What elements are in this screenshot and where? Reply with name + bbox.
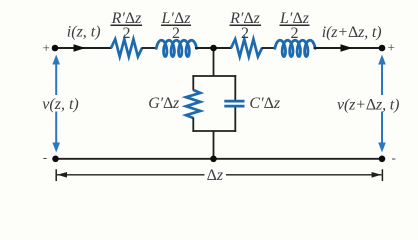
voltage arrow v(z+dz,t): up arrowhead (378, 55, 386, 153)
label R'dz/2 #2 (229, 10, 261, 42)
dimension: left tick (55, 169, 57, 181)
wire: shunt top rail (192, 75, 236, 77)
svg-text:2: 2 (291, 25, 299, 42)
dimension: line right part (226, 174, 382, 176)
voltage arrow v(z+dz,t): shaft upper (381, 62, 383, 95)
voltage arrow v(z,t): down arrowhead (52, 143, 60, 153)
wire: G branch bottom (192, 118, 194, 132)
dimension: right arrowhead (372, 172, 382, 178)
resistor R'dz/2 #2 (231, 39, 262, 56)
dimension: left arrowhead (57, 172, 67, 178)
wire: R2 to L2 (262, 47, 276, 49)
svg-text:i(z, t): i(z, t) (67, 24, 101, 41)
voltage arrow v(z+dz,t): shaft lower (381, 112, 383, 144)
svg-text:​Δz: ​Δz (207, 167, 224, 184)
conductance G'dz zigzag (186, 90, 200, 118)
current arrowhead i(z+dz,t) (341, 44, 353, 51)
current arrowhead i(z,t) (74, 44, 86, 51)
node: bottom left (52, 156, 59, 163)
svg-text:G′Δz: G′Δz (148, 95, 180, 112)
wire: shunt stem top (213, 48, 215, 76)
capacitor C'dz plates (224, 101, 244, 106)
inductor L'dz/2 #1 (156, 40, 196, 56)
label L'dz/2 #2 (279, 10, 310, 42)
wire: shunt bottom rail (192, 130, 236, 132)
svg-text:-: - (392, 150, 396, 165)
wire: L1 to center node to R2 (195, 47, 232, 49)
node: bottom right (379, 156, 386, 163)
wire: G branch top (192, 75, 194, 90)
voltage arrow v(z,t): shaft lower (55, 112, 57, 144)
node: top left (52, 45, 59, 52)
voltage arrow v(z,t): up arrowhead (52, 55, 60, 153)
label R'dz/2 #1 (111, 10, 143, 42)
dimension: line left part (57, 174, 205, 176)
svg-text:+: + (43, 40, 50, 55)
wire: C branch bottom (234, 108, 236, 132)
svg-text:i(z+Δz, t): i(z+Δz, t) (322, 24, 382, 41)
wire: top conductor, left node to R1 (55, 47, 112, 49)
svg-text:2: 2 (172, 25, 180, 42)
label L'dz/2 #1 (161, 10, 192, 42)
svg-text:-: - (43, 150, 47, 165)
node: top center (210, 45, 217, 52)
node: top right (379, 45, 386, 52)
svg-text:2: 2 (241, 25, 249, 42)
voltage arrow v(z,t): shaft upper (55, 62, 57, 95)
resistor R'dz/2 #1 (111, 39, 142, 56)
dimension: right tick (381, 169, 383, 181)
svg-text:v(z, t): v(z, t) (42, 96, 78, 113)
wire: bottom conductor (56, 158, 383, 160)
svg-text:+: + (388, 40, 395, 55)
svg-text:2: 2 (123, 25, 131, 42)
svg-text:C′Δz: C′Δz (249, 95, 280, 112)
voltage arrow v(z+dz,t): down arrowhead (378, 143, 386, 153)
wire: C branch top (234, 75, 236, 100)
node: bottom center (210, 156, 217, 163)
wire: R1 to L1 (142, 47, 157, 49)
wire: L2 to right node (314, 47, 383, 49)
svg-text:v(z+Δz, t): v(z+Δz, t) (337, 97, 399, 114)
wire: shunt stem bottom (213, 131, 215, 159)
inductor L'dz/2 #2 (275, 40, 315, 56)
